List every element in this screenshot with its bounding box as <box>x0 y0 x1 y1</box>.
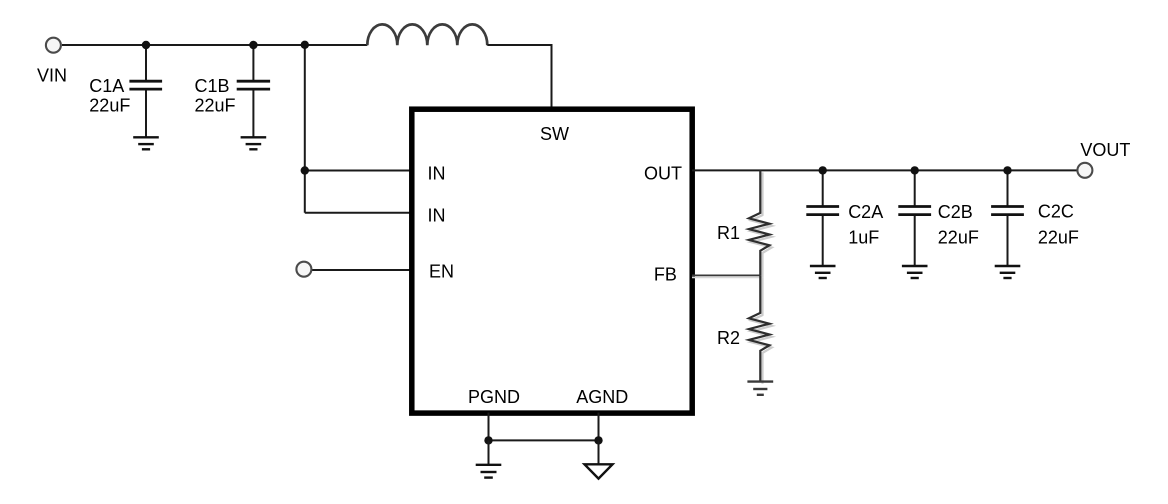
junction dot AGND <box>594 436 602 444</box>
capacitor C1A <box>129 81 162 89</box>
svg-text:IN: IN <box>428 163 446 183</box>
svg-text:VOUT: VOUT <box>1080 140 1130 160</box>
terminal EN <box>296 262 311 277</box>
svg-text:R2: R2 <box>717 328 740 348</box>
svg-text:EN: EN <box>429 262 454 282</box>
wire IN pin 1 <box>305 170 414 172</box>
IC U1 box <box>412 109 692 413</box>
wire PGND-AGND link <box>489 439 599 441</box>
wire PGND ground lead <box>488 440 490 464</box>
svg-text:C1B: C1B <box>195 76 230 96</box>
wire C2C stem lower <box>1007 215 1009 266</box>
resistor R1 shadow <box>751 172 772 277</box>
svg-text:VIN: VIN <box>37 65 67 85</box>
wire AGND ground lead <box>598 440 600 464</box>
junction dot IN branch <box>301 166 309 174</box>
wire EN pin <box>312 269 414 271</box>
ground AGND triangle <box>585 464 613 478</box>
wire C1B stem upper <box>252 45 254 81</box>
junction dot top rail C1B <box>249 41 257 49</box>
svg-text:C2C: C2C <box>1038 202 1074 222</box>
resistor R1 <box>749 170 770 275</box>
wire top rail VIN to inductor <box>62 44 367 46</box>
wire C2B stem lower <box>914 215 916 266</box>
junction dot C2A <box>819 166 827 174</box>
capacitor C2B <box>898 207 931 215</box>
svg-text:C2A: C2A <box>848 202 883 222</box>
resistor R2 shadow <box>751 278 772 384</box>
wire OUT rail <box>692 169 1077 171</box>
wire FB pin shadow <box>692 276 762 278</box>
junction dot top rail C1A <box>142 41 150 49</box>
ground C1A <box>133 137 159 149</box>
svg-text:IN: IN <box>428 205 446 225</box>
wire IN pin 2 <box>305 212 414 214</box>
junction dot PGND <box>484 436 492 444</box>
svg-text:22uF: 22uF <box>195 95 236 115</box>
wire C2B stem upper <box>914 170 916 206</box>
ground C1B <box>241 137 267 149</box>
junction dot C2B <box>911 166 919 174</box>
wire inductor to SW corner <box>487 45 551 110</box>
junction dot C2C <box>1003 166 1011 174</box>
svg-text:PGND: PGND <box>468 387 520 407</box>
svg-text:OUT: OUT <box>644 163 682 183</box>
svg-text:C1A: C1A <box>89 76 124 96</box>
ground C2C <box>995 266 1021 278</box>
wire C1B stem lower <box>252 89 254 137</box>
capacitor C2C <box>991 207 1024 215</box>
resistor R2 <box>749 275 770 381</box>
svg-text:C2B: C2B <box>938 202 973 222</box>
svg-text:22uF: 22uF <box>1038 228 1079 248</box>
wire C2A stem lower <box>822 215 824 266</box>
ground C2A <box>810 266 836 278</box>
wire C1A stem lower <box>145 89 147 137</box>
svg-text:1uF: 1uF <box>848 228 879 248</box>
wire PGND stem <box>488 413 490 441</box>
inductor L1 <box>367 24 487 45</box>
wire C2C stem upper <box>1007 170 1009 206</box>
terminal VOUT <box>1077 163 1092 178</box>
ground PGND <box>476 465 502 478</box>
wire FB pin <box>692 274 760 276</box>
ground C2B <box>902 266 928 278</box>
svg-text:SW: SW <box>540 124 569 144</box>
wire AGND stem <box>598 413 600 441</box>
svg-text:FB: FB <box>654 265 677 285</box>
wire C2A stem upper <box>822 170 824 206</box>
ground R2 <box>747 382 773 395</box>
svg-text:22uF: 22uF <box>89 95 130 115</box>
svg-text:AGND: AGND <box>576 387 628 407</box>
svg-text:22uF: 22uF <box>938 228 979 248</box>
capacitor C1B <box>237 81 270 89</box>
svg-text:R1: R1 <box>717 223 740 243</box>
capacitor C2A <box>806 207 839 215</box>
wire vertical input branch <box>304 45 306 213</box>
wire C1A stem upper <box>145 45 147 81</box>
terminal VIN <box>46 38 61 53</box>
junction dot top rail input branch <box>301 41 309 49</box>
